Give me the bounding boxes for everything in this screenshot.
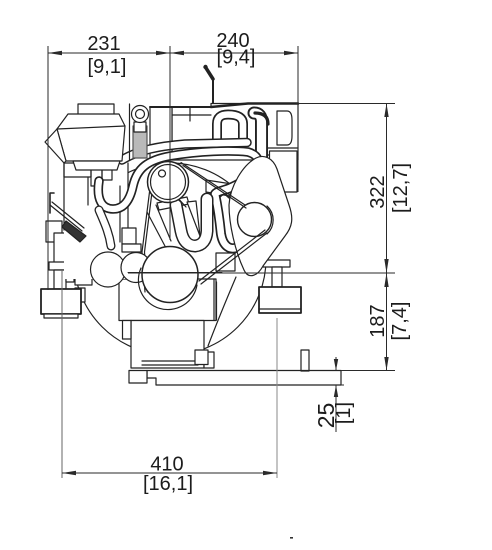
svg-text:[16,1]: [16,1] [143,473,193,495]
svg-text:[9,4]: [9,4] [217,47,256,69]
svg-text:231: 231 [87,33,120,55]
svg-text:[7,4]: [7,4] [389,302,411,341]
svg-text:[12,7]: [12,7] [390,163,412,213]
svg-text:322: 322 [367,175,389,208]
svg-text:187: 187 [367,304,389,337]
svg-text:[1]: [1] [333,402,355,424]
svg-text:[9,1]: [9,1] [88,56,127,78]
